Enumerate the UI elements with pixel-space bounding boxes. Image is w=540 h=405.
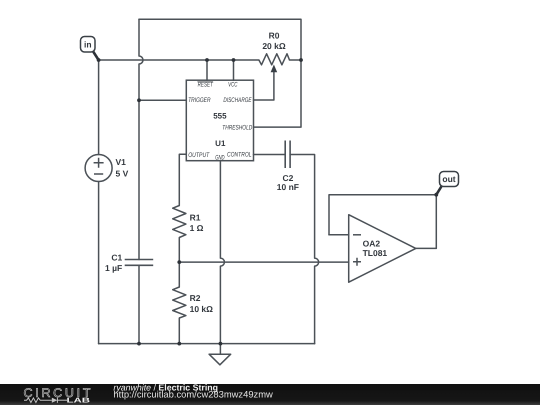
C1 label <box>111 253 122 263</box>
U1 pin DISCHARGE <box>223 97 252 104</box>
wire R2 top lead <box>178 262 180 287</box>
U1 pin CONTROL <box>227 152 252 159</box>
R0 value label <box>262 41 286 51</box>
resistor R2 <box>173 287 186 318</box>
capacitor C1 <box>125 260 154 266</box>
U1 pin THRESHOLD <box>222 125 252 132</box>
node TRIGGER <box>137 98 141 102</box>
wire C2 to ground rail with hop <box>290 155 319 344</box>
wire TRIGGER <box>139 99 186 101</box>
node in <box>97 58 101 62</box>
svg-text:GND: GND <box>215 155 225 162</box>
svg-text:1 µF: 1 µF <box>105 263 122 273</box>
R1 value label <box>190 223 204 233</box>
C2 value label <box>277 182 299 192</box>
wire R1 bottom lead <box>178 238 180 263</box>
svg-text:TL081: TL081 <box>363 248 388 258</box>
wire left vertical with hop over node-in rail <box>139 19 143 259</box>
U1 pin GND <box>215 155 225 162</box>
svg-text:10 kΩ: 10 kΩ <box>190 304 214 314</box>
svg-text:R0: R0 <box>269 31 280 41</box>
555 IC U1 box <box>186 80 253 161</box>
node C1 bottom <box>137 342 141 346</box>
svg-text:TRIGGER: TRIGGER <box>188 97 210 104</box>
wire plus-input rail <box>179 261 348 263</box>
svg-text:THRESHOLD: THRESHOLD <box>222 125 252 132</box>
wire feedback loop <box>329 195 436 235</box>
svg-text:1 Ω: 1 Ω <box>190 223 204 233</box>
R0 label <box>269 31 280 41</box>
footer bar <box>0 384 540 405</box>
wire RESET stub <box>206 60 208 80</box>
op-amp OA2 <box>349 215 416 283</box>
node out flag <box>436 172 458 195</box>
node out <box>434 193 438 197</box>
C1 value label <box>105 263 122 273</box>
wire R0 right lead <box>290 59 302 61</box>
svg-text:VCC: VCC <box>228 82 238 89</box>
wire V1 top lead <box>98 60 100 155</box>
wire VCC stub <box>233 60 235 80</box>
svg-text:CONTROL: CONTROL <box>227 152 252 159</box>
wire GND pin with hop over plus-input rail <box>220 161 224 344</box>
resistor R1 <box>173 206 186 238</box>
C2 label <box>282 173 293 183</box>
V1 label <box>116 157 127 167</box>
resistor R0 <box>259 54 290 65</box>
U1 pin TRIGGER <box>188 97 210 104</box>
wire DISCHARGE to wiper <box>254 72 274 100</box>
svg-text:http://circuitlab.com/cw283mwz: http://circuitlab.com/cw283mwz49zmw <box>113 389 273 400</box>
wire inverting input stub <box>329 234 349 236</box>
node VCC rail <box>232 58 236 62</box>
wire R2 bottom lead <box>178 318 180 344</box>
wire OUTPUT to R1 <box>179 154 186 205</box>
ground <box>209 344 231 365</box>
R1 label <box>190 213 201 223</box>
svg-text:V1: V1 <box>116 157 127 167</box>
node ground <box>219 342 223 346</box>
wire op-amp output <box>416 195 437 249</box>
node R1/R2 <box>177 260 181 264</box>
footer title <box>113 383 273 400</box>
svg-text:R1: R1 <box>190 213 201 223</box>
node in flag <box>81 37 99 61</box>
U1 designator <box>215 139 226 148</box>
svg-text:10 nF: 10 nF <box>277 182 299 192</box>
capacitor C2 <box>285 141 290 169</box>
V1 value label <box>116 169 129 179</box>
U1 pin RESET <box>197 82 213 89</box>
wire V1 bottom lead <box>98 182 100 344</box>
svg-text:RESET: RESET <box>198 82 214 89</box>
OA2 part label <box>363 248 388 258</box>
wire in rail <box>99 59 259 61</box>
svg-text:DISCHARGE: DISCHARGE <box>223 97 252 104</box>
U1 pin OUTPUT <box>188 152 210 159</box>
wire top rail <box>139 19 301 60</box>
voltage source V1 <box>85 155 112 182</box>
R2 value label <box>190 304 214 314</box>
U1 label 555 <box>213 111 227 120</box>
svg-text:in: in <box>84 40 92 50</box>
node R2 bottom <box>177 342 181 346</box>
U1 pin VCC <box>228 82 238 89</box>
node RESET rail <box>205 58 209 62</box>
wire THRESHOLD <box>254 60 302 127</box>
node R0 right <box>299 58 303 62</box>
svg-text:5 V: 5 V <box>116 169 129 179</box>
wire C1 bottom to ground rail <box>138 265 140 343</box>
svg-text:OUTPUT: OUTPUT <box>188 152 210 159</box>
svg-text:20 kΩ: 20 kΩ <box>262 41 286 51</box>
R2 label <box>190 293 201 303</box>
OA2 label <box>363 239 381 249</box>
svg-text:R2: R2 <box>190 293 201 303</box>
CircuitLab logo <box>24 386 91 405</box>
R0 wiper arrow <box>271 65 278 73</box>
svg-text:out: out <box>442 174 455 184</box>
wire CONTROL to C2 <box>254 154 286 156</box>
svg-text:555: 555 <box>213 111 227 120</box>
wire ground rail <box>99 343 315 345</box>
svg-text:C1: C1 <box>111 253 122 263</box>
svg-text:LAB: LAB <box>67 398 91 405</box>
svg-text:U1: U1 <box>215 139 226 148</box>
